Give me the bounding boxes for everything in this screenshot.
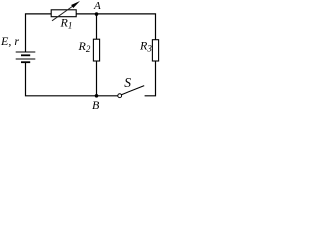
svg-text:R2: R2 <box>78 39 91 54</box>
resistor R3 (box) <box>152 40 158 61</box>
wire bottom-left (battery bottom, down, along bottom to switch circle) <box>26 62 118 95</box>
resistor R1 (variable, box) <box>51 10 76 17</box>
R1 wiper arrow <box>52 4 77 21</box>
svg-text:R3: R3 <box>139 38 152 53</box>
node A dot <box>95 12 99 16</box>
svg-text:S: S <box>124 75 131 90</box>
svg-text:A: A <box>93 0 101 12</box>
svg-text:R1: R1 <box>60 16 73 31</box>
battery cell long plate 1 <box>16 51 36 53</box>
wire right vertical below R3 to bottom-right corner to switch contact <box>145 61 156 96</box>
node B dot <box>95 94 99 98</box>
battery cell short plate 1 <box>21 54 30 56</box>
battery cell long plate 2 <box>16 58 36 60</box>
svg-text:E, r: E, r <box>0 34 19 48</box>
wire top-left horizontal (corner to R1 left) <box>26 14 52 52</box>
wire middle branch upper (node A down to R2 top) <box>96 14 98 39</box>
switch S lever <box>121 86 144 95</box>
switch S pivot circle <box>118 94 122 98</box>
resistor R2 (box) <box>93 39 99 61</box>
wire middle branch lower (R2 bottom down to node B) <box>96 61 98 96</box>
wire top-right horizontal (R1 right to right corner, down to R3) <box>76 14 155 40</box>
svg-text:B: B <box>92 98 100 112</box>
battery cell short plate 2 <box>21 61 30 63</box>
